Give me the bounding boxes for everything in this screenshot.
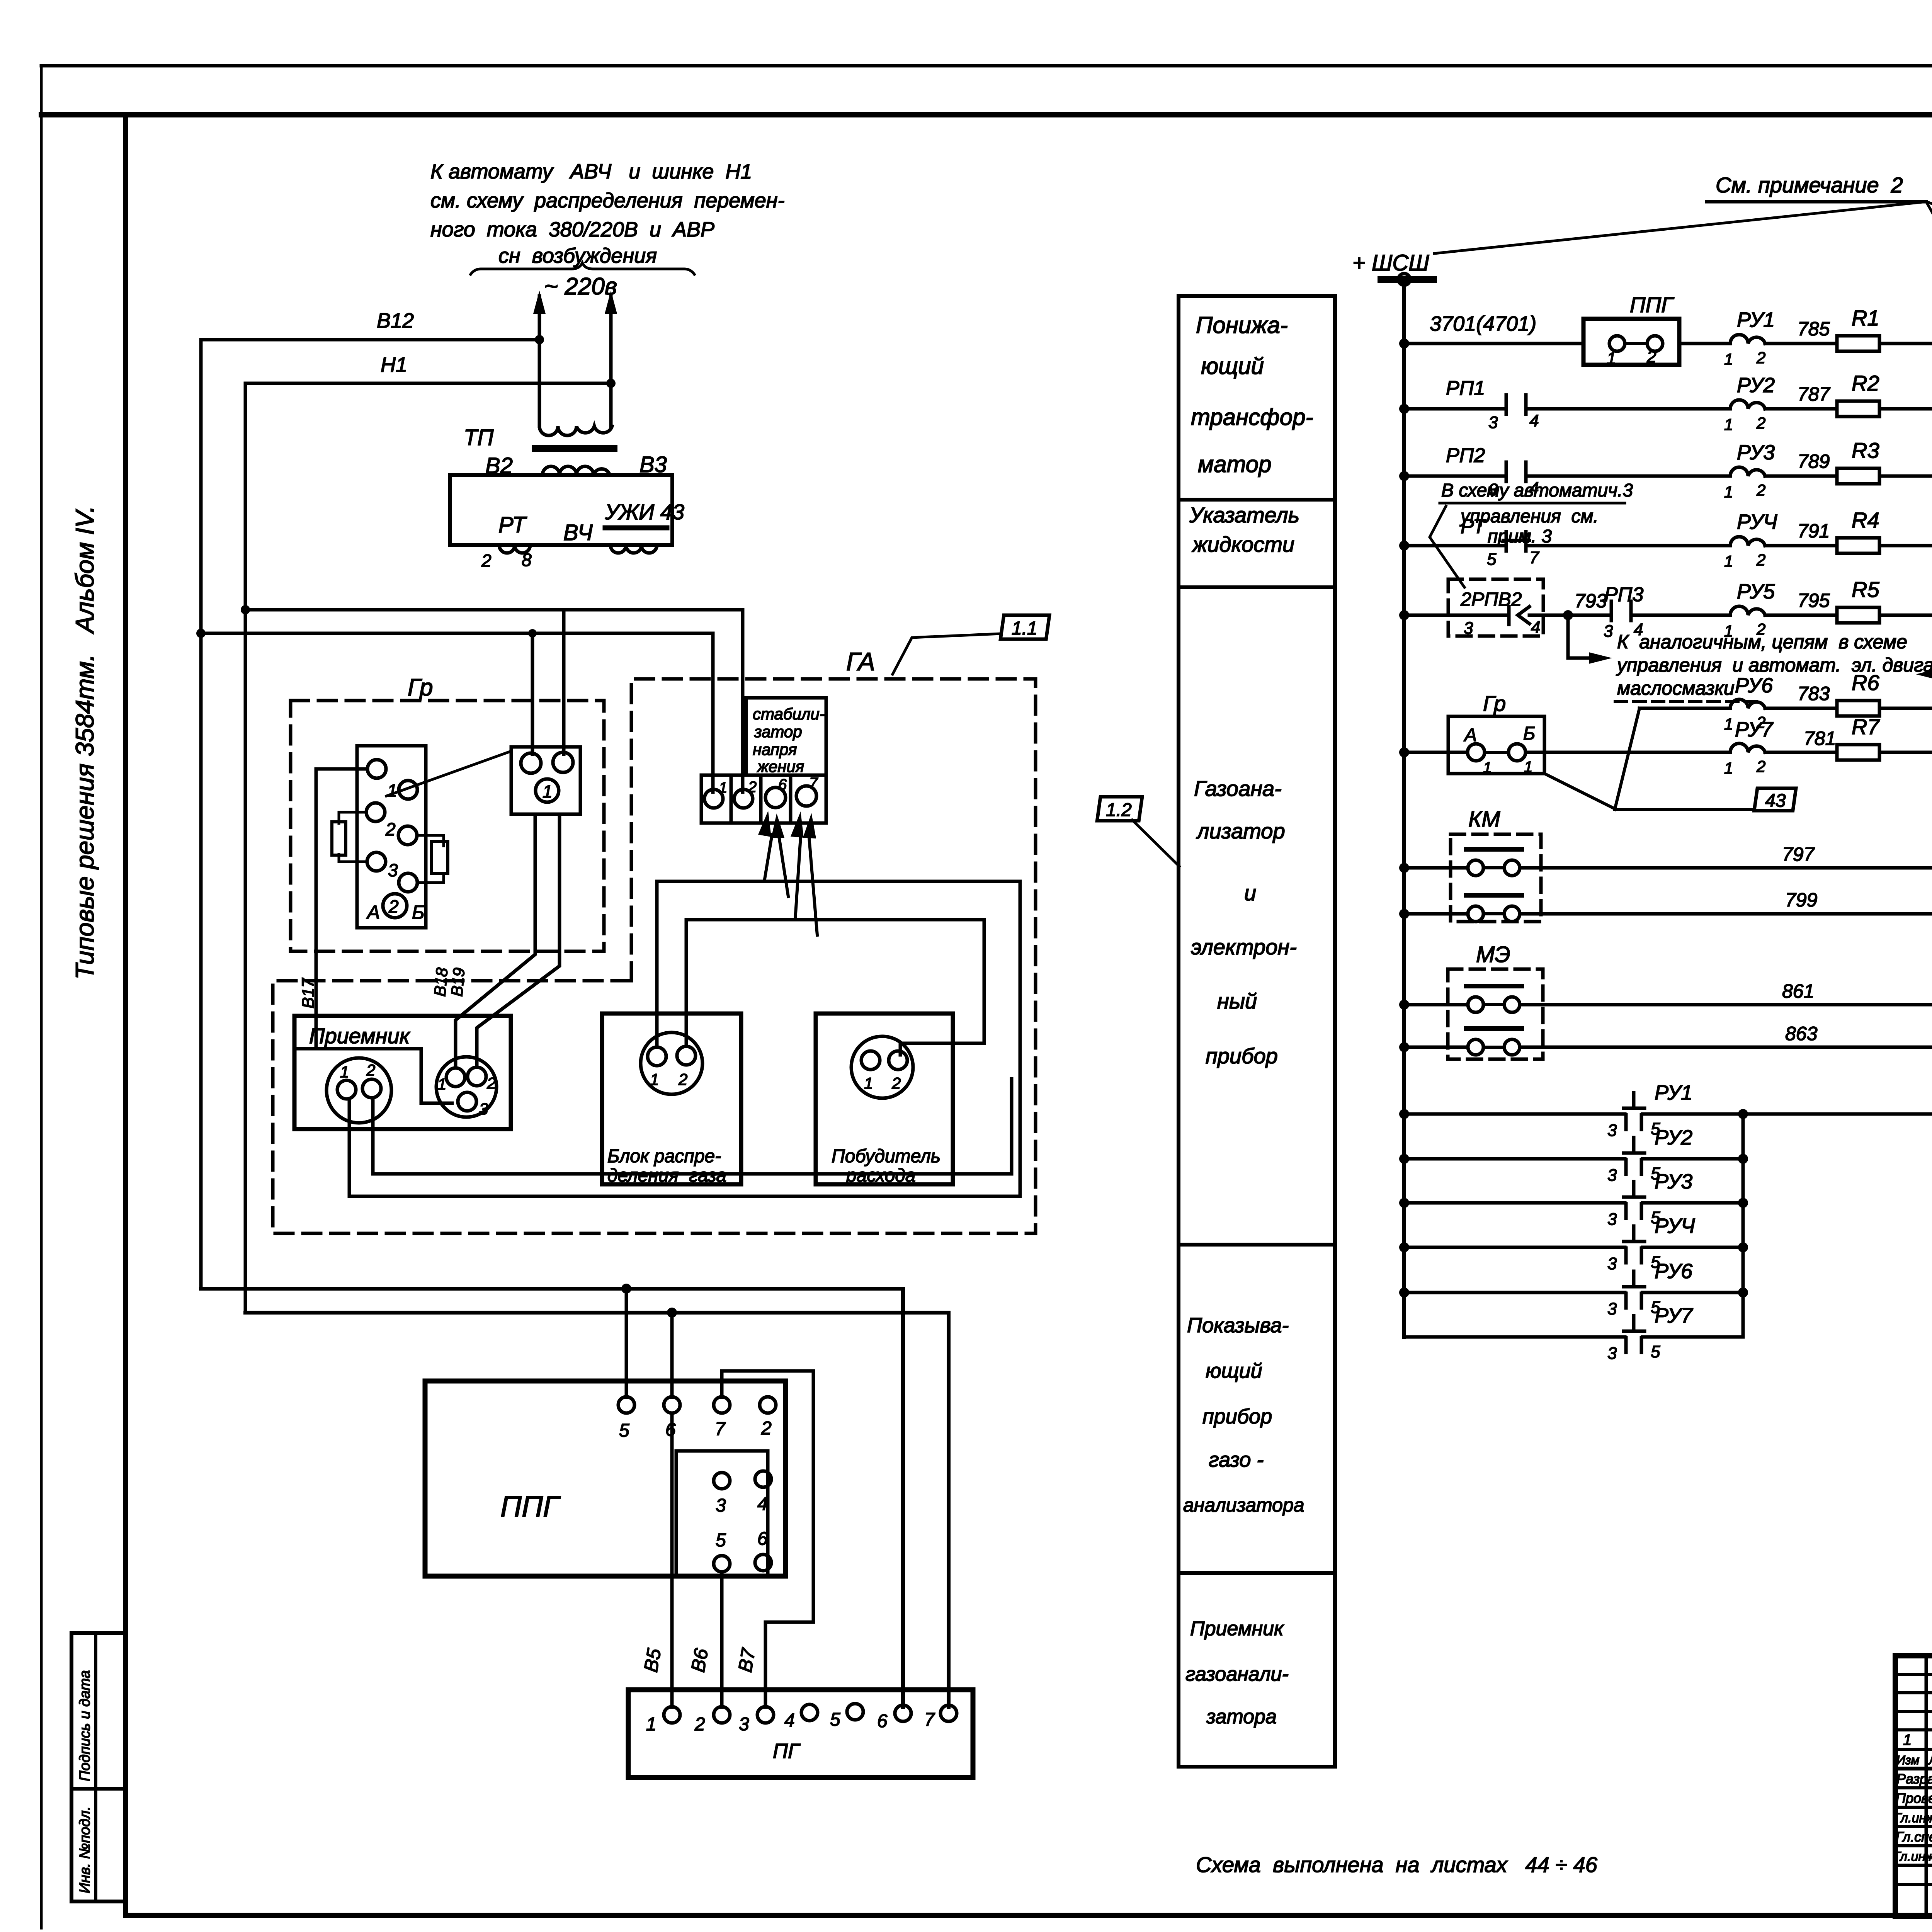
ME contact row863 (1468, 1039, 1483, 1055)
svg-text:1: 1 (1607, 349, 1616, 368)
node H1-arrow junction (606, 379, 616, 388)
bus node +ShS (1398, 274, 1410, 285)
wire B6 (720, 1572, 724, 1707)
svg-text:трансфор-: трансфор- (1191, 404, 1313, 430)
wire row797 left (1404, 866, 1468, 870)
svg-text:6: 6 (877, 1711, 888, 1731)
stamp vertical a (1925, 1656, 1928, 1917)
svg-text:2: 2 (761, 1418, 772, 1439)
strip divider 1 (730, 775, 733, 823)
flag 43 (1754, 788, 1796, 811)
svg-text:1: 1 (1724, 350, 1733, 368)
wire row3 right (1879, 474, 1932, 478)
flag 1.2 (1097, 797, 1142, 821)
svg-text:РУ1: РУ1 (1737, 308, 1775, 332)
svg-text:анализатора: анализатора (1183, 1494, 1304, 1516)
relay box 2RPV2 dashed (1448, 579, 1543, 636)
wire row863 to coil (1520, 1046, 1932, 1049)
svg-text:Гр: Гр (1483, 691, 1506, 716)
wire to PPG pin5 (625, 1289, 628, 1397)
bus vertical +ShS (1402, 279, 1406, 1337)
svg-text:2: 2 (388, 896, 399, 917)
wire diag from box to socket (386, 752, 510, 796)
svg-text:797: 797 (1782, 844, 1815, 865)
svg-text:3: 3 (1607, 1210, 1617, 1229)
svg-text:1: 1 (650, 1070, 659, 1088)
svg-text:1: 1 (340, 1063, 349, 1081)
circled 2 (383, 894, 407, 918)
svg-text:2: 2 (1756, 481, 1765, 499)
svg-text:1: 1 (437, 1075, 446, 1093)
pin A2 (362, 1079, 381, 1098)
svg-text:матор: матор (1198, 451, 1272, 477)
svg-text:ный: ный (1217, 989, 1257, 1013)
strip divider 2 (759, 775, 763, 823)
svg-text:3: 3 (1607, 1166, 1617, 1185)
coil V4-UZHI on box bottom (611, 545, 657, 553)
svg-text:маслосмазки: маслосмазки (1617, 677, 1735, 699)
liquid indicator box UZHI (450, 475, 672, 545)
svg-text:1: 1 (1724, 483, 1733, 501)
wire left riser B12 (199, 340, 203, 1289)
svg-text:3: 3 (1607, 1254, 1617, 1273)
svg-text:Понижа-: Понижа- (1196, 312, 1288, 338)
wire B18 down to receiver (456, 814, 535, 1068)
wire row4 mid (1526, 544, 1730, 548)
wire branch to socket circle1 (531, 633, 534, 754)
pin D1 (648, 1047, 666, 1066)
svg-text:Б: Б (1523, 723, 1535, 744)
relay box ME dashed (1448, 969, 1543, 1059)
wire row7 to R7 (1765, 751, 1837, 754)
svg-text:газоанали-: газоанали- (1185, 1663, 1289, 1685)
wire row3 mid (1526, 474, 1730, 478)
svg-text:2: 2 (891, 1074, 901, 1092)
node row863 at +bus (1399, 1042, 1409, 1052)
wire row5 to R5 (1765, 614, 1837, 617)
svg-text:1: 1 (543, 781, 553, 801)
wire row1 to R1 (1765, 342, 1837, 345)
svg-text:787: 787 (1798, 383, 1831, 405)
svg-text:Блок распре-: Блок распре- (607, 1146, 721, 1167)
wire bottom run to PG6 (201, 1289, 903, 1707)
wire row6 to R6 (1765, 707, 1837, 710)
wire H1 (245, 382, 611, 385)
svg-text:В5: В5 (640, 1647, 665, 1674)
svg-text:РУ6: РУ6 (1655, 1260, 1693, 1283)
coil RU4 (1730, 537, 1765, 546)
svg-text:В12: В12 (377, 309, 414, 332)
stamp row line 3 (1895, 1710, 1932, 1713)
PPG pin 7 (714, 1397, 730, 1413)
svg-text:789: 789 (1798, 451, 1830, 472)
wire row863 left (1404, 1046, 1468, 1049)
svg-text:1: 1 (1724, 415, 1733, 434)
stamp row line 12 (1895, 1883, 1932, 1886)
leader from flag 43 to row6 (1615, 708, 1639, 810)
wire bus y2281 (657, 881, 1020, 1196)
wire row1 left (1404, 342, 1583, 345)
wire row799 to coil (1520, 912, 1932, 916)
leader GA to flag 1.1 (893, 634, 1001, 674)
node row5 branch (1563, 610, 1573, 620)
coil RU7 (1730, 743, 1765, 752)
svg-text:793: 793 (1575, 590, 1607, 612)
wire row863 link (1483, 1046, 1504, 1049)
wire row7 left (1404, 751, 1468, 754)
wire arrow a to term6 (764, 835, 772, 881)
svg-text:Подпись и дата: Подпись и дата (77, 1670, 93, 1781)
contact RP3 ticks (1610, 601, 1613, 621)
top band bottom line (41, 112, 1932, 117)
svg-text:3: 3 (479, 1100, 488, 1118)
underline UZHI 43 (605, 526, 667, 531)
pin P2 (889, 1051, 907, 1070)
svg-text:1: 1 (1724, 759, 1733, 777)
resistor element left (332, 822, 346, 855)
svg-text:Гл.инж.пр: Гл.инж.пр (1894, 1811, 1932, 1825)
resistor R7 (1837, 745, 1879, 760)
node row4 at +bus (1399, 541, 1409, 551)
resistor R1 (1837, 336, 1879, 351)
node branch PPG pin6 (667, 1308, 677, 1318)
svg-text:2: 2 (486, 1074, 496, 1092)
svg-text:1: 1 (1524, 759, 1532, 776)
svg-text:5: 5 (1651, 1342, 1660, 1361)
wire row5 after box (1529, 614, 1611, 617)
wire row5 mid (1631, 614, 1730, 617)
svg-text:1.2: 1.2 (1106, 800, 1132, 820)
gas distribution box (602, 1014, 741, 1184)
svg-text:5: 5 (830, 1709, 840, 1730)
svg-text:7: 7 (715, 1419, 726, 1439)
flag 1.1 (1000, 615, 1049, 639)
terminal 1 (704, 789, 723, 808)
resistor R6 (1837, 701, 1879, 716)
resistor R4 (1837, 538, 1879, 553)
wire row5 right (1879, 614, 1932, 617)
svg-text:861: 861 (1782, 980, 1814, 1002)
coil RU2 (1730, 400, 1765, 409)
divider 4 (1179, 1571, 1335, 1575)
wire between Gr contacts (1485, 751, 1509, 754)
wire B5 (670, 1413, 674, 1707)
svg-text:Показыва-: Показыва- (1187, 1314, 1289, 1337)
svg-text:R1: R1 (1852, 306, 1879, 330)
wire to PPG pin6 (670, 1313, 674, 1397)
receiver label strip and wire to pin B3 (296, 1049, 452, 1103)
svg-text:ющий: ющий (1201, 353, 1264, 379)
stamp row line 6 (1895, 1767, 1932, 1770)
svg-text:2: 2 (1756, 757, 1765, 776)
svg-text:3: 3 (1607, 1121, 1617, 1140)
wire row861 link (1483, 1003, 1504, 1006)
wire B17 from pin1 (316, 769, 367, 1049)
wire row861 left (1404, 1003, 1468, 1007)
svg-text:1: 1 (1483, 759, 1492, 776)
svg-text:3: 3 (1604, 622, 1613, 641)
RU contact row RU4 (1399, 1242, 1409, 1252)
wire row3 to R3 (1765, 474, 1837, 478)
stamp row line 7 (1895, 1786, 1932, 1789)
svg-text:R3: R3 (1852, 438, 1879, 463)
svg-text:Приемник: Приемник (309, 1024, 411, 1048)
stamp row line 9 (1895, 1825, 1932, 1828)
svg-text:R7: R7 (1852, 714, 1880, 739)
KM contact row797 (1468, 860, 1483, 876)
KM contact row799 (1468, 906, 1483, 922)
coil RU5 (1730, 606, 1765, 615)
wire row2 right (1879, 407, 1932, 411)
terminal 7 (796, 786, 816, 806)
svg-text:РУЧ: РУЧ (1655, 1214, 1695, 1238)
wire row4 to R4 (1765, 544, 1837, 548)
connector box in Gr (357, 746, 426, 928)
svg-text:Изм: Изм (1896, 1753, 1919, 1767)
svg-text:Гл.спец.: Гл.спец. (1896, 1829, 1932, 1845)
receiver box (294, 1016, 511, 1129)
svg-text:ППГ: ППГ (1630, 293, 1674, 317)
svg-text:РУ2: РУ2 (1737, 374, 1775, 397)
middle legend column box (1179, 296, 1335, 1767)
node branch PPG pin5 (621, 1284, 631, 1294)
receiver round connector B (436, 1057, 497, 1117)
svg-text:1: 1 (719, 779, 727, 796)
svg-text:МЭ: МЭ (1476, 942, 1510, 967)
svg-text:РУ7: РУ7 (1735, 718, 1774, 741)
PPG pin 5 (618, 1397, 634, 1413)
wire from H1 riser to stabilizer pin2 (245, 610, 743, 792)
svg-text:2: 2 (1646, 347, 1656, 366)
pin B3 (458, 1092, 476, 1111)
socket circle a (521, 753, 541, 773)
node riser-1639 (196, 629, 206, 638)
wire row3 left (1404, 474, 1506, 478)
svg-text:1: 1 (387, 781, 397, 801)
RU contact row RU2 (1399, 1154, 1409, 1164)
left margin cells box (71, 1633, 126, 1901)
svg-text:1: 1 (1903, 1731, 1912, 1748)
svg-text:2: 2 (366, 1061, 375, 1079)
ME contact row861 (1468, 997, 1483, 1012)
wire left riser H1 (244, 383, 247, 1313)
svg-text:783: 783 (1798, 683, 1830, 704)
divider 1 (1179, 498, 1335, 502)
PPG inner connector box (676, 1451, 768, 1576)
svg-text:газо -: газо - (1209, 1448, 1264, 1471)
wire row2 left (1404, 407, 1506, 411)
svg-text:Приемник: Приемник (1190, 1617, 1284, 1640)
svg-text:3: 3 (388, 860, 398, 880)
resistor R3 (1837, 468, 1879, 484)
receiver round connector A (327, 1058, 391, 1123)
svg-text:прим. 3: прим. 3 (1488, 526, 1552, 547)
svg-text:ППГ: ППГ (500, 1490, 561, 1523)
svg-text:Проверил: Проверил (1896, 1790, 1932, 1806)
svg-text:ющий: ющий (1206, 1359, 1262, 1383)
wire row4 right (1879, 544, 1932, 548)
lead resistor left top (339, 812, 366, 823)
svg-text:РУ5: РУ5 (1737, 580, 1775, 603)
wire row7 right (1879, 751, 1932, 754)
svg-text:2: 2 (694, 1714, 705, 1735)
node row861 at +bus (1399, 1000, 1409, 1010)
socket box with 3 circles (511, 747, 580, 814)
terminal 6 (765, 787, 786, 808)
relay box KM dashed (1451, 834, 1541, 922)
svg-text:5: 5 (619, 1420, 629, 1441)
wire arrow c to term7 (795, 837, 801, 920)
PPG pin 6 (664, 1397, 680, 1413)
leader note to +bus (1434, 202, 1926, 253)
svg-text:РП2: РП2 (1446, 444, 1485, 467)
arrow up left to AV4 (538, 296, 541, 426)
svg-text:РУ2: РУ2 (1655, 1126, 1692, 1149)
svg-text:5: 5 (1487, 550, 1497, 569)
flow inducer box (816, 1014, 953, 1184)
svg-text:затора: затора (1206, 1706, 1277, 1728)
svg-text:R2: R2 (1852, 371, 1879, 395)
wire row5 left (1404, 614, 1509, 617)
svg-text:Указатель: Указатель (1189, 503, 1299, 527)
svg-text:4: 4 (1529, 412, 1539, 430)
leader horizontal to flag 43 (1615, 808, 1754, 811)
PG terminal strip (628, 1690, 973, 1777)
svg-text:6: 6 (757, 1529, 768, 1549)
svg-text:Лист: Лист (1928, 1753, 1932, 1767)
wire row7 mid (1526, 751, 1730, 754)
wire row799 left (1404, 912, 1468, 916)
svg-text:ного тока 380/220В и АВР: ного тока 380/220В и АВР (430, 218, 714, 241)
node row7 at +bus (1399, 747, 1409, 757)
svg-text:1: 1 (1724, 715, 1733, 733)
svg-text:R6: R6 (1852, 670, 1879, 695)
svg-text:+ ШСШ: + ШСШ (1352, 250, 1429, 276)
svg-text:8: 8 (522, 550, 532, 570)
svg-text:799: 799 (1785, 889, 1817, 911)
svg-text:4: 4 (757, 1494, 768, 1514)
svg-text:К аналогичным, цепям в схеме: К аналогичным, цепям в схеме (1617, 631, 1907, 653)
node B12-arrow junction (535, 335, 544, 344)
transformer TP primary winding (539, 426, 612, 435)
stabilizer terminal strip (701, 775, 826, 823)
svg-text:1.1: 1.1 (1012, 618, 1037, 639)
svg-text:сн возбуждения: сн возбуждения (498, 244, 657, 267)
wire row1 mid (1679, 342, 1730, 345)
pin P1 (861, 1051, 880, 1070)
svg-text:РУ6: РУ6 (1735, 674, 1773, 697)
svg-text:2: 2 (1756, 414, 1765, 432)
wire row4 left (1404, 544, 1506, 548)
terminal 2 (734, 789, 753, 808)
pin D2 (677, 1046, 696, 1065)
inner pin 4 (755, 1471, 771, 1487)
PPG pin 2 (760, 1397, 776, 1413)
stamp row line 10 (1895, 1844, 1932, 1847)
svg-text:4: 4 (784, 1710, 795, 1731)
svg-text:4: 4 (1531, 618, 1540, 637)
svg-text:2: 2 (678, 1070, 687, 1088)
RU contact trunk right (1742, 1114, 1745, 1337)
svg-text:УЖИ 43: УЖИ 43 (605, 500, 684, 524)
circle pin2 (366, 803, 385, 821)
coil RU3 (1730, 467, 1765, 476)
strip divider 3 (789, 775, 793, 823)
svg-text:6: 6 (778, 776, 787, 793)
divider 2 (1179, 585, 1335, 589)
left margin cells divider horizontal (71, 1787, 126, 1791)
svg-text:1: 1 (1724, 552, 1733, 570)
svg-text:В схему автоматич.3: В схему автоматич.3 (1441, 480, 1633, 501)
svg-text:Гл.инж.пр: Гл.инж.пр (1893, 1849, 1932, 1864)
svg-text:ТП: ТП (464, 425, 494, 450)
contact in 2RPV2 (1507, 607, 1511, 624)
svg-text:3: 3 (739, 1714, 749, 1735)
svg-text:3: 3 (1488, 413, 1498, 432)
circle pin3b (399, 873, 417, 892)
wire arrow b to term6 (779, 837, 788, 896)
left margin cells divider vertical (94, 1633, 97, 1901)
coil RU6 (1730, 699, 1765, 708)
svg-text:напря: напря (753, 740, 797, 759)
leader note to SHZS (1926, 202, 1932, 266)
leader Gr to flag 43 (1544, 774, 1615, 809)
transformer secondary winding (543, 466, 610, 475)
svg-text:стабили-: стабили- (753, 705, 825, 723)
wire row2 mid (1526, 407, 1730, 411)
svg-text:3: 3 (1607, 1299, 1617, 1318)
svg-text:5: 5 (716, 1530, 726, 1551)
svg-text:795: 795 (1798, 590, 1830, 611)
wire receiver A2 bottom run (373, 1079, 1012, 1174)
stamp row line 5 (1895, 1748, 1932, 1751)
svg-text:РТ: РТ (498, 512, 527, 537)
coil RU1 (1730, 335, 1765, 344)
wire from B12 riser to stabilizer pin1 (201, 633, 713, 792)
svg-text:R5: R5 (1852, 577, 1879, 602)
svg-text:К автомату АВЧ и шинке Н: К автомату АВЧ и шинке Н1 (430, 160, 752, 183)
wire row2 to R2 (1765, 407, 1837, 411)
leader note to -bus (1926, 202, 1932, 264)
svg-text:ВЧ: ВЧ (563, 520, 593, 545)
svg-text:785: 785 (1798, 318, 1830, 340)
wire row6 (1639, 707, 1730, 710)
contact box Gr (1448, 716, 1544, 774)
svg-text:В7: В7 (734, 1646, 760, 1674)
brace under note (471, 263, 694, 274)
resistor element right (432, 842, 448, 873)
node row1 at +bus (1399, 338, 1409, 349)
svg-text:прибор: прибор (1202, 1405, 1272, 1428)
svg-text:7: 7 (1529, 548, 1539, 567)
resistor R2 (1837, 401, 1879, 417)
RU contact row RU1 (1399, 1109, 1409, 1119)
svg-text:Гр: Гр (408, 674, 433, 701)
svg-text:2: 2 (385, 819, 396, 839)
svg-text:Б: Б (412, 901, 425, 923)
svg-text:электрон-: электрон- (1191, 935, 1297, 959)
distribution round connector (641, 1032, 702, 1094)
stamp row line 4 (1895, 1728, 1932, 1731)
svg-text:РТ: РТ (1461, 515, 1486, 538)
svg-text:~ 220в: ~ 220в (544, 273, 617, 300)
svg-text:2: 2 (481, 551, 492, 571)
svg-text:жения: жения (757, 757, 804, 776)
wire B19 down to receiver (477, 814, 560, 1067)
svg-text:В19: В19 (447, 967, 468, 997)
svg-text:R4: R4 (1852, 508, 1879, 532)
dashed outline GA (273, 679, 1036, 1233)
